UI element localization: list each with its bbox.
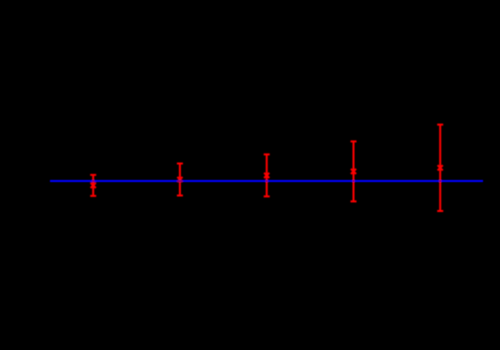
errorbar point 3 — [264, 154, 270, 196]
fit line — [50, 180, 483, 182]
errorbar point 5 — [437, 125, 443, 211]
errorbar point 2 — [177, 164, 183, 196]
errorbar point 1 — [90, 175, 96, 196]
errorbar point 4 — [351, 141, 357, 201]
red showing through fit line at crossings — [91, 125, 441, 211]
